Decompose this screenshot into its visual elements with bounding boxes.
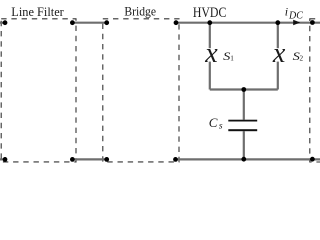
- svg-text:2: 2: [300, 54, 304, 62]
- wire: S1 upper lead: [209, 23, 211, 49]
- node: S2 tap junction: [275, 20, 280, 25]
- bridge block (dashed box): [103, 19, 179, 162]
- wire: filter to bridge bottom: [72, 158, 106, 160]
- node: bridge output top (HVDC): [174, 20, 179, 25]
- node: bridge input top: [104, 20, 109, 25]
- node: bridge output bottom: [173, 157, 178, 162]
- svg-text:1: 1: [230, 55, 234, 63]
- wire: AC input bottom stub: [0, 158, 5, 160]
- wire: negative rail: [176, 158, 320, 160]
- node: AC bottom terminal: [3, 157, 8, 162]
- label S1: [223, 51, 234, 63]
- wire: S2 lower lead: [277, 62, 279, 90]
- node: bridge input bottom: [104, 157, 109, 162]
- current arrow i_DC: [293, 20, 300, 26]
- wire: Cs top lead: [243, 90, 245, 120]
- node: filter output bottom: [70, 157, 75, 162]
- svg-text:i: i: [285, 4, 288, 18]
- node: filter output top: [70, 20, 75, 25]
- svg-text:Bridge: Bridge: [124, 3, 156, 18]
- load block (dashed box, cropped at right edge): [310, 19, 320, 162]
- node: Cs bottom junction: [241, 157, 246, 162]
- wire: S1 lower lead: [209, 62, 211, 90]
- wire: HVDC positive rail: [176, 22, 320, 24]
- svg-text:x: x: [204, 38, 218, 69]
- svg-text:x: x: [272, 38, 286, 69]
- node: switch bus junction: [241, 87, 246, 92]
- svg-text:HVDC: HVDC: [193, 5, 227, 21]
- svg-text:DC: DC: [288, 10, 303, 21]
- wire: filter to bridge top: [72, 22, 106, 24]
- svg-text:Line Filter: Line Filter: [11, 4, 64, 19]
- svg-text:s: s: [219, 122, 223, 132]
- current label i_DC: [285, 4, 303, 21]
- wire: AC input top stub: [0, 22, 5, 24]
- wire: S2 upper lead: [277, 23, 279, 49]
- node: S1 tap junction: [207, 20, 212, 25]
- label S2: [293, 51, 304, 63]
- wire: Cs bottom lead: [243, 131, 245, 159]
- node: load input bottom: [310, 157, 315, 162]
- capacitor Cs: [228, 120, 257, 132]
- svg-text:C: C: [209, 115, 218, 130]
- label Cs: [209, 115, 223, 132]
- node: load input top: [310, 20, 315, 25]
- line filter block (dashed box): [1, 19, 76, 162]
- node: AC top terminal: [3, 20, 8, 25]
- wire: switch common bus: [210, 88, 278, 90]
